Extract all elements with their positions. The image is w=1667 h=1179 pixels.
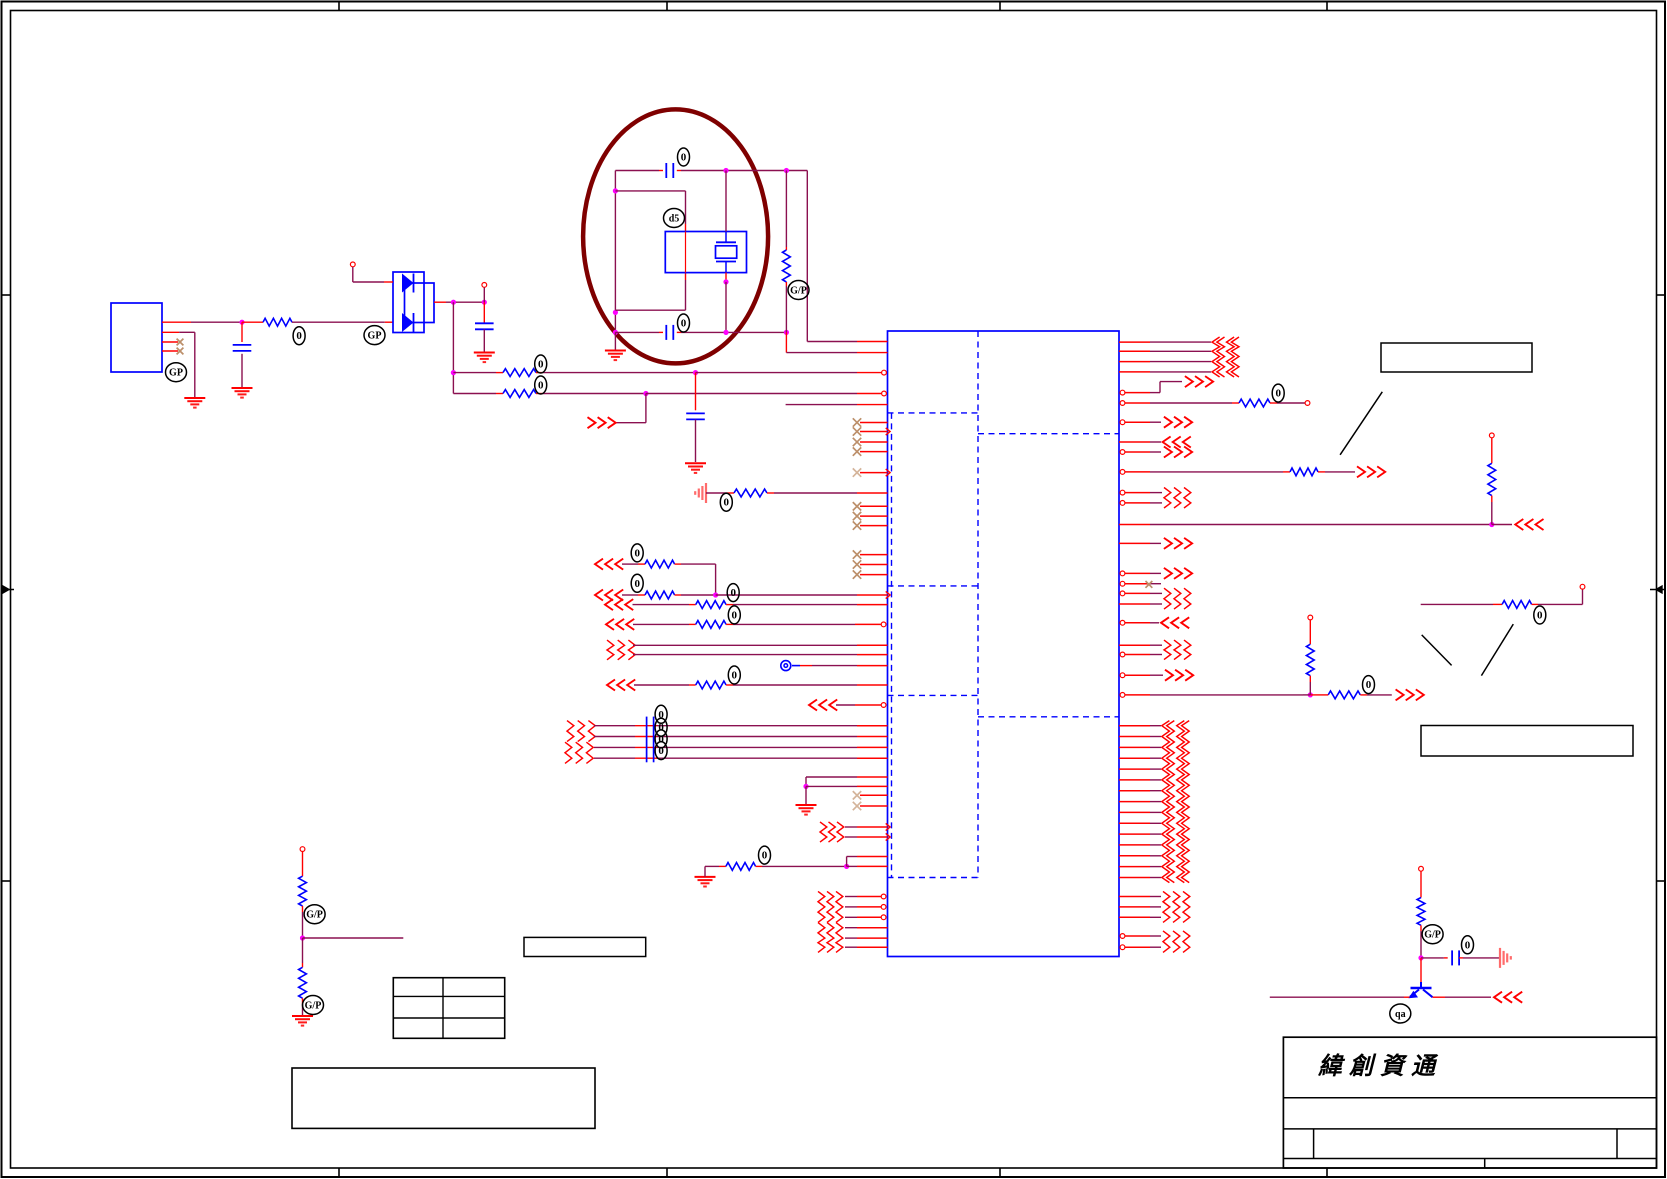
svg-text:0: 0 (634, 578, 640, 590)
svg-text:緯創資通: 緯創資通 (1317, 1053, 1442, 1080)
svg-text:0: 0 (1275, 388, 1281, 400)
svg-text:G/P: G/P (790, 286, 807, 297)
svg-text:G/P: G/P (1424, 930, 1441, 941)
svg-text:G/P: G/P (305, 1001, 322, 1012)
svg-text:0: 0 (1465, 939, 1471, 951)
svg-text:0: 0 (730, 587, 736, 599)
svg-text:0: 0 (681, 318, 687, 330)
svg-text:0: 0 (658, 722, 664, 734)
svg-text:G/P: G/P (306, 910, 323, 921)
svg-text:0: 0 (538, 359, 544, 371)
svg-text:GP: GP (368, 331, 382, 342)
svg-text:qa: qa (1395, 1009, 1406, 1020)
svg-text:0: 0 (1366, 679, 1372, 691)
svg-text:0: 0 (538, 380, 544, 392)
svg-text:0: 0 (762, 850, 768, 862)
svg-text:0: 0 (658, 745, 664, 757)
svg-text:0: 0 (658, 733, 664, 745)
svg-text:0: 0 (724, 497, 730, 509)
svg-text:0: 0 (681, 152, 687, 164)
svg-text:0: 0 (732, 670, 738, 682)
svg-text:0: 0 (296, 330, 302, 342)
svg-text:d5: d5 (669, 214, 680, 225)
svg-text:0: 0 (634, 547, 640, 559)
svg-text:0: 0 (1537, 610, 1543, 622)
svg-text:GP: GP (169, 368, 183, 379)
svg-text:0: 0 (732, 609, 738, 621)
